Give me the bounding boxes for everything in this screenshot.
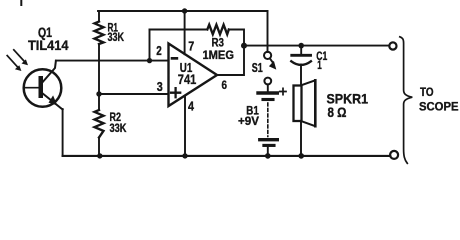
svg-text:S1: S1	[252, 60, 263, 75]
Q1 base lead	[24, 87, 39, 89]
node: C1 junction on output wire	[298, 43, 304, 49]
node: R2 to ground rail	[97, 153, 102, 158]
node: feedback / pin2 junction	[147, 58, 152, 63]
battery plus sign	[280, 88, 286, 94]
battery short plate 1	[263, 98, 273, 101]
speaker cone	[301, 80, 315, 126]
switch S1 contact circle	[264, 52, 271, 59]
scope terminal bottom	[390, 151, 398, 159]
wire: top supply rail	[98, 10, 268, 12]
wire: bottom ground rail	[63, 155, 391, 157]
resistor R3	[207, 25, 229, 35]
node: top rail / pin7 junction	[182, 8, 187, 13]
svg-text:3: 3	[157, 79, 163, 94]
phototransistor Q1 circle	[24, 69, 62, 107]
svg-text:33K: 33K	[108, 30, 125, 44]
svg-text:741: 741	[178, 71, 197, 87]
brace	[400, 37, 413, 164]
svg-text:TIL414: TIL414	[28, 38, 69, 53]
battery stem bottom	[267, 147, 269, 156]
svg-text:4: 4	[188, 99, 195, 114]
op-amp minus symbol	[171, 57, 179, 60]
speaker SPKR1 body rect	[294, 86, 302, 122]
node: pin4 to ground	[182, 153, 187, 158]
speaker cone mouth line	[314, 80, 317, 126]
wire: feedback top horizontal	[150, 29, 208, 31]
pin 6 output wire	[217, 46, 244, 75]
capacitor C1 flat plate	[292, 54, 311, 57]
node: speaker to ground	[298, 153, 304, 159]
svg-text:7: 7	[188, 39, 194, 54]
op-amp U1 triangle	[169, 44, 218, 107]
battery short plate 2	[264, 144, 274, 147]
svg-text:1: 1	[317, 59, 322, 72]
wire: feedback left vertical	[149, 30, 151, 61]
resistor R1	[95, 22, 104, 45]
battery long plate 2	[260, 138, 278, 141]
wire: collector to pin 2	[56, 60, 169, 62]
svg-text:TO: TO	[420, 86, 434, 99]
wire: emitter down to ground rail	[62, 109, 64, 156]
node: output / R3 junction	[241, 43, 247, 49]
battery long plate 1	[258, 91, 277, 94]
light arrow 1	[14, 50, 24, 61]
battery B1 top contact circle	[264, 78, 271, 85]
wire: output to scope terminal	[244, 45, 389, 47]
scope terminal top	[389, 42, 396, 49]
wire: speaker to ground	[300, 121, 302, 156]
svg-text:SCOPE: SCOPE	[419, 101, 459, 114]
battery stem top	[267, 84, 269, 91]
capacitor C1 curved plate	[291, 61, 311, 65]
Q1 collector lead	[43, 61, 56, 82]
node: battery to ground	[265, 153, 271, 159]
svg-text:1MEG: 1MEG	[203, 48, 235, 62]
node: R1/R2 divider junction	[96, 91, 101, 96]
Q1 base bar	[39, 76, 44, 98]
svg-text:+9V: +9V	[238, 115, 259, 128]
wire: C1 to speaker	[300, 65, 302, 86]
battery dashed middle	[267, 103, 269, 137]
op-amp plus symbol	[171, 88, 180, 97]
switch S1 lever	[270, 58, 273, 62]
svg-text:8 Ω: 8 Ω	[328, 105, 347, 120]
pin 4 wire	[184, 96, 186, 156]
Q1 emitter arrowhead	[49, 95, 58, 105]
light arrow 2	[7, 56, 17, 67]
pin 7 wire	[184, 11, 186, 54]
wire: R3 right to output node	[229, 30, 244, 46]
wire: R1-R2 vertical branch	[98, 11, 100, 156]
wire: S1 feed from top rail	[267, 11, 269, 52]
capacitor C1 stem	[300, 46, 302, 54]
wire: pin 3 input	[99, 93, 169, 95]
Q1 emitter lead	[43, 94, 63, 110]
stray tick mark top left	[20, 0, 22, 5]
resistor R2	[95, 110, 104, 138]
svg-text:2: 2	[156, 43, 162, 58]
svg-text:33K: 33K	[110, 121, 127, 135]
svg-text:6: 6	[222, 78, 228, 92]
